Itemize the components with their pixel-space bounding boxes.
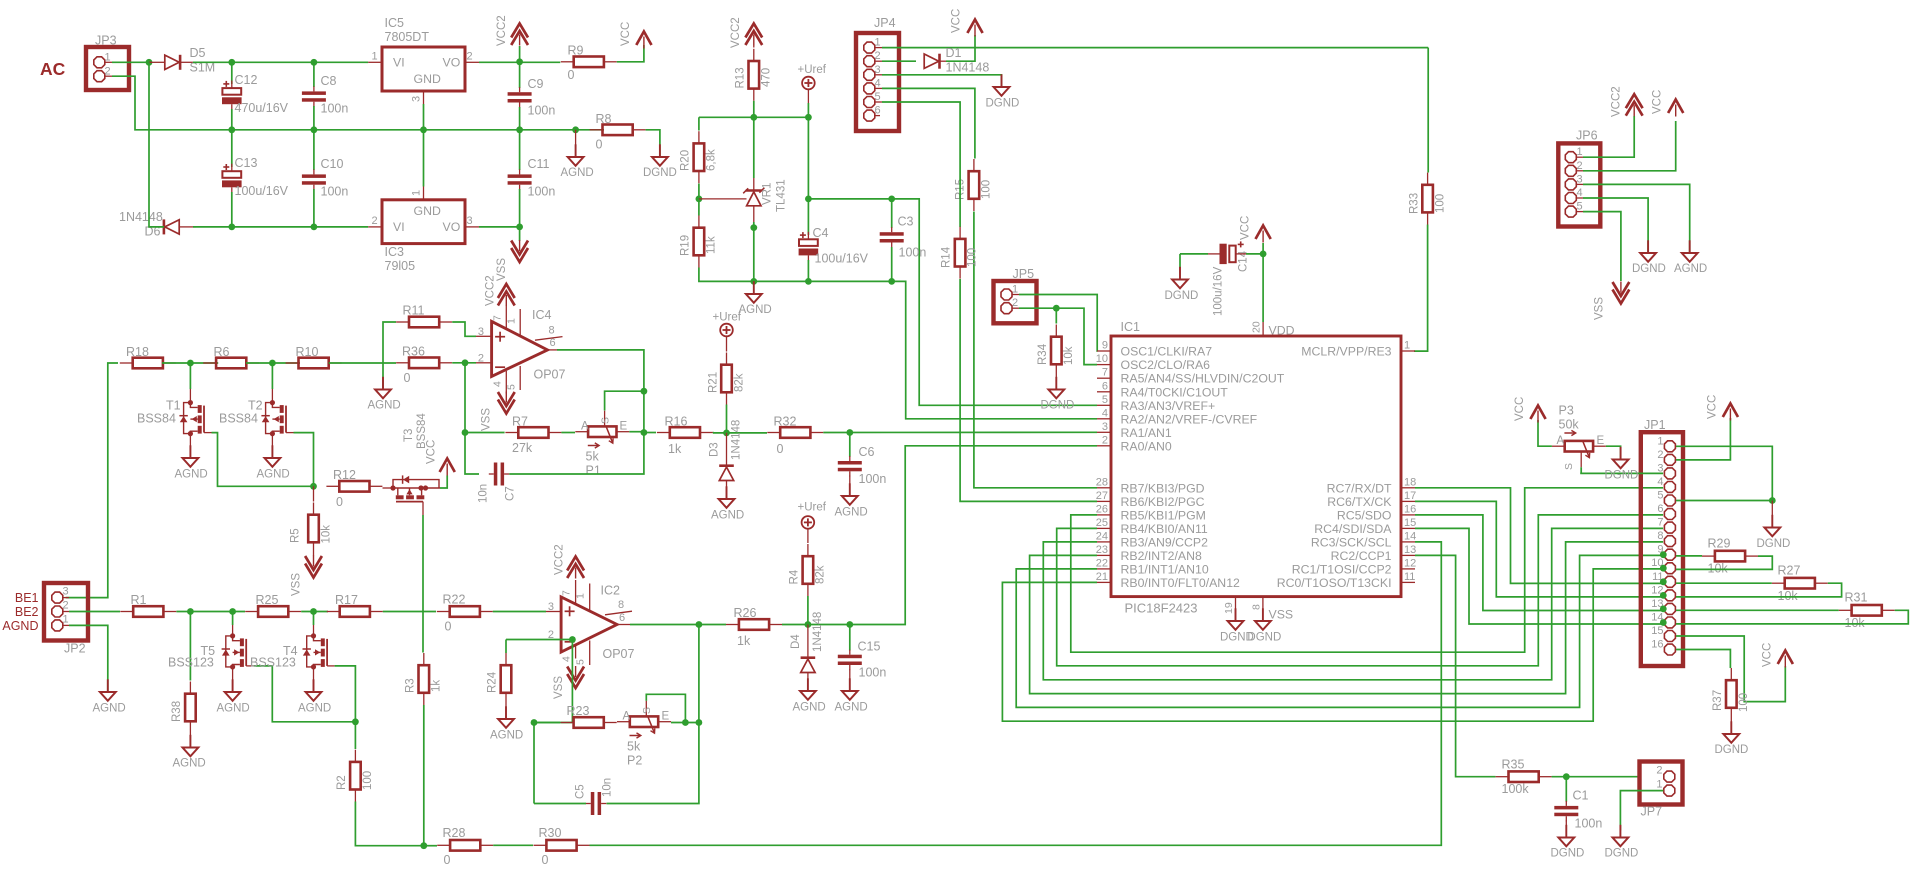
wire P1 S loop xyxy=(605,391,644,410)
trimmer P2 xyxy=(630,716,658,727)
ground AGND D3 xyxy=(726,486,728,499)
wire IC5 GND down xyxy=(423,104,425,130)
svg-text:100n: 100n xyxy=(859,666,887,680)
svg-text:R20: R20 xyxy=(680,150,692,171)
svg-text:R36: R36 xyxy=(402,345,425,359)
wire JP1.3 from P3 xyxy=(1580,472,1663,474)
resistor R15 xyxy=(969,171,980,199)
svg-text:14: 14 xyxy=(1404,530,1416,542)
svg-text:0: 0 xyxy=(336,495,343,509)
svg-text:DGND: DGND xyxy=(986,98,1020,110)
svg-text:IC4: IC4 xyxy=(532,308,552,322)
svg-text:R11: R11 xyxy=(403,304,425,318)
wire JP6.2 to VCC xyxy=(1583,121,1676,171)
svg-text:R22: R22 xyxy=(443,593,466,607)
svg-text:3: 3 xyxy=(1102,421,1108,433)
svg-text:JP7: JP7 xyxy=(1641,805,1663,819)
svg-text:T2: T2 xyxy=(248,399,263,413)
wire BE1 riser xyxy=(66,363,118,598)
resistor R11 xyxy=(409,317,439,328)
svg-text:1k: 1k xyxy=(737,634,751,648)
svg-text:7: 7 xyxy=(1102,367,1108,379)
resistor R17 xyxy=(340,606,370,617)
svg-text:10k: 10k xyxy=(321,525,333,544)
wire Uref rail xyxy=(807,89,809,103)
node VCC2 tap xyxy=(516,58,523,65)
node R34 xyxy=(1053,305,1060,312)
svg-text:7: 7 xyxy=(1657,517,1663,529)
node gate rail xyxy=(310,483,317,490)
svg-text:2: 2 xyxy=(478,353,484,365)
svg-text:AGND: AGND xyxy=(793,702,826,714)
svg-text:D3: D3 xyxy=(709,442,721,457)
svg-text:1: 1 xyxy=(875,37,881,49)
svg-text:VCC: VCC xyxy=(1514,397,1526,421)
wire R17 to R22 xyxy=(383,611,436,613)
IC4 pin1 stub xyxy=(519,309,521,336)
wire IC3 out to VSS xyxy=(479,227,520,241)
capacitor C12 xyxy=(231,62,233,84)
supply VSS JP6 xyxy=(1613,290,1630,304)
svg-text:VCC2: VCC2 xyxy=(496,15,508,46)
ground DGND xyxy=(659,144,661,157)
svg-text:VO: VO xyxy=(443,220,461,234)
svg-text:4: 4 xyxy=(1102,407,1108,419)
supply VCC VDD xyxy=(1262,243,1264,254)
svg-text:E: E xyxy=(662,711,670,723)
svg-text:5: 5 xyxy=(1577,201,1583,213)
node R23 xyxy=(531,719,538,726)
svg-text:3: 3 xyxy=(63,586,69,598)
connector JP4 xyxy=(856,33,899,131)
wire JP3.2 down to GND rail xyxy=(112,76,232,130)
svg-text:PIC18F2423: PIC18F2423 xyxy=(1125,601,1198,616)
wire RB3 to JP1.7 xyxy=(1043,528,1663,679)
wire R26 to RA0 riser xyxy=(782,446,1097,625)
svg-text:50k: 50k xyxy=(1559,418,1580,432)
IC2 pin4 VSS xyxy=(575,646,577,659)
svg-text:2: 2 xyxy=(1102,434,1108,446)
svg-text:R6: R6 xyxy=(214,345,230,359)
node T1 gate row xyxy=(187,360,194,367)
svg-text:2: 2 xyxy=(875,50,881,62)
resistor R28 xyxy=(450,840,480,851)
node C6 xyxy=(846,429,853,436)
svg-text:R19: R19 xyxy=(680,235,692,256)
supply VCC JP1.15 xyxy=(1778,651,1793,665)
resistor R13 xyxy=(753,46,755,48)
op-amp IC2 OP07 xyxy=(561,597,617,652)
T2 to AGND xyxy=(271,434,273,458)
svg-text:VI: VI xyxy=(393,220,405,234)
wire JP5.1 to OSC1 xyxy=(1019,295,1098,352)
svg-text:3: 3 xyxy=(478,326,484,338)
supply VCC P3 xyxy=(1530,406,1545,420)
svg-text:C15: C15 xyxy=(858,640,881,654)
svg-text:D5: D5 xyxy=(190,46,206,60)
wire RB4 to JP1.6 xyxy=(1057,515,1663,666)
svg-text:VR1: VR1 xyxy=(762,183,774,205)
svg-text:+Uref: +Uref xyxy=(798,502,827,514)
IC2 pin1 stub xyxy=(589,584,591,612)
wire P3 E to DGND xyxy=(1606,446,1621,459)
supply VSS xyxy=(511,248,528,262)
svg-text:1N4148: 1N4148 xyxy=(812,612,824,652)
svg-text:DGND: DGND xyxy=(1165,290,1199,302)
supply VCC JP6 xyxy=(1668,100,1683,114)
svg-text:7805DT: 7805DT xyxy=(385,30,430,44)
resistor R37 xyxy=(1726,680,1737,708)
ground DGND pin8 xyxy=(1262,608,1264,621)
IC4 pin8 stub xyxy=(535,337,563,341)
supply VCC2 xyxy=(519,46,521,62)
svg-text:R1: R1 xyxy=(131,593,147,607)
connector JP3 xyxy=(86,47,129,90)
svg-text:2: 2 xyxy=(1577,160,1583,172)
resistor R24 xyxy=(505,640,507,654)
wire R27 loop xyxy=(1676,583,1842,597)
svg-text:AGND: AGND xyxy=(93,703,126,715)
wire agnd rail right xyxy=(892,281,1097,418)
svg-text:R29: R29 xyxy=(1708,537,1731,551)
node C5 riser xyxy=(696,719,703,726)
svg-text:AGND: AGND xyxy=(490,730,523,742)
svg-text:RB1/INT1/AN10: RB1/INT1/AN10 xyxy=(1121,562,1209,576)
svg-text:VCC2: VCC2 xyxy=(554,544,566,575)
svg-text:RC7/RX/DT: RC7/RX/DT xyxy=(1327,481,1392,495)
svg-text:3: 3 xyxy=(548,601,554,613)
svg-text:DGND: DGND xyxy=(1041,400,1075,412)
supply +Uref R4 xyxy=(802,516,815,529)
node C15 xyxy=(846,621,853,628)
svg-text:1: 1 xyxy=(1012,284,1018,296)
svg-text:DGND: DGND xyxy=(1605,848,1639,860)
ground AGND ref xyxy=(753,281,755,293)
ground DGND pin19 xyxy=(1235,608,1237,621)
svg-text:0: 0 xyxy=(777,442,784,456)
trimmer P1 xyxy=(588,426,616,437)
svg-text:S: S xyxy=(1563,463,1575,470)
svg-text:VI: VI xyxy=(393,56,405,70)
svg-text:C9: C9 xyxy=(528,77,544,91)
wire R22 to IC2+ xyxy=(493,611,546,613)
resistor R29 xyxy=(1715,551,1745,562)
svg-text:100n: 100n xyxy=(899,246,927,260)
wire JP4.5 to R14 xyxy=(882,102,960,227)
node VR1 anode xyxy=(750,224,757,231)
svg-text:+Uref: +Uref xyxy=(713,312,742,324)
svg-text:15: 15 xyxy=(1651,625,1663,637)
svg-text:DGND: DGND xyxy=(1757,538,1791,550)
wire IC3 GND up xyxy=(423,130,425,187)
svg-text:C7: C7 xyxy=(505,486,517,501)
node AC1 xyxy=(146,59,153,66)
svg-text:2: 2 xyxy=(1657,449,1663,461)
IC2 pin8 stub xyxy=(605,611,632,615)
svg-text:R10: R10 xyxy=(296,345,319,359)
voltage regulator IC3 79l05 xyxy=(382,200,465,244)
svg-text:R4: R4 xyxy=(789,569,801,584)
node rail C12 xyxy=(228,126,235,133)
svg-text:100: 100 xyxy=(1435,194,1447,213)
svg-text:6: 6 xyxy=(1657,503,1663,515)
svg-text:VSS: VSS xyxy=(481,408,493,431)
svg-text:VCC2: VCC2 xyxy=(485,275,497,306)
svg-text:RA0/AN0: RA0/AN0 xyxy=(1121,439,1172,453)
svg-text:RA5/AN4/SS/HLVDIN/C2OUT: RA5/AN4/SS/HLVDIN/C2OUT xyxy=(1121,372,1285,386)
svg-text:BSS84: BSS84 xyxy=(219,412,258,426)
svg-text:1: 1 xyxy=(1404,340,1410,352)
wire R14 to RB6 xyxy=(960,279,1097,501)
svg-text:5: 5 xyxy=(575,659,587,665)
node C4 xyxy=(805,278,812,285)
svg-text:S: S xyxy=(641,707,653,714)
wire R28 to R30 xyxy=(493,844,533,846)
svg-text:3: 3 xyxy=(1577,173,1583,185)
node R3 bottom xyxy=(420,842,427,849)
svg-text:R35: R35 xyxy=(1502,758,1525,772)
svg-text:IC2: IC2 xyxy=(601,584,621,598)
T3 drain to R3 xyxy=(422,515,424,653)
svg-text:R17: R17 xyxy=(335,593,358,607)
svg-text:RC2/CCP1: RC2/CCP1 xyxy=(1331,549,1392,563)
svg-text:JP3: JP3 xyxy=(95,34,117,48)
svg-text:RB0/INT0/FLT0/AN12: RB0/INT0/FLT0/AN12 xyxy=(1121,576,1241,590)
svg-text:P2: P2 xyxy=(627,754,642,768)
wire JP1.15 VCC xyxy=(1676,636,1785,702)
svg-text:R18: R18 xyxy=(126,345,149,359)
svg-text:AGND: AGND xyxy=(739,304,772,316)
wire D6 rail xyxy=(149,62,164,227)
wire T1 gate down xyxy=(212,433,314,487)
svg-text:AGND: AGND xyxy=(298,703,331,715)
svg-text:JP5: JP5 xyxy=(1013,267,1035,281)
svg-text:R31: R31 xyxy=(1845,591,1868,605)
svg-text:79l05: 79l05 xyxy=(385,259,416,273)
node rail2 C10 xyxy=(311,224,318,231)
svg-text:C12: C12 xyxy=(235,73,258,87)
resistor R33 xyxy=(1422,185,1433,213)
svg-text:7: 7 xyxy=(492,315,504,321)
node T5 gate xyxy=(229,608,236,615)
diode D4 xyxy=(807,625,809,659)
svg-text:27k: 27k xyxy=(512,441,533,455)
svg-text:22: 22 xyxy=(1096,557,1108,569)
resistor R19 xyxy=(694,228,705,256)
ground DGND R34 xyxy=(1055,377,1057,390)
svg-text:R33: R33 xyxy=(1409,193,1421,214)
svg-text:VCC: VCC xyxy=(1240,216,1252,240)
wire R10 to R36 xyxy=(329,362,396,364)
ground AGND rail xyxy=(575,130,577,157)
svg-text:100: 100 xyxy=(1738,693,1750,712)
transistor T3 BSS84 xyxy=(383,487,394,489)
svg-text:GND: GND xyxy=(414,204,441,218)
svg-text:R21: R21 xyxy=(708,372,720,393)
svg-text:8: 8 xyxy=(1251,604,1263,610)
svg-text:VSS: VSS xyxy=(1594,297,1606,320)
resistor R23 xyxy=(574,717,604,728)
svg-text:15: 15 xyxy=(1404,517,1416,529)
svg-text:AGND: AGND xyxy=(835,507,868,519)
svg-text:0: 0 xyxy=(404,371,411,385)
capacitor C15 xyxy=(849,625,851,651)
svg-text:0: 0 xyxy=(445,620,452,634)
wire BE2 row xyxy=(69,611,120,613)
svg-text:MCLR/VPP/RE3: MCLR/VPP/RE3 xyxy=(1301,345,1391,359)
wire C14 left to DGND xyxy=(1208,253,1220,255)
node Uref drop xyxy=(805,114,812,121)
resistor R22 xyxy=(450,606,480,617)
capacitor C7 feedback xyxy=(494,463,498,486)
diode D1 xyxy=(882,60,916,62)
wire inv to feedback rail xyxy=(465,363,479,474)
svg-text:C3: C3 xyxy=(898,215,914,229)
svg-text:R2: R2 xyxy=(336,775,348,790)
svg-text:T3: T3 xyxy=(403,429,415,442)
node R38 top xyxy=(187,608,194,615)
svg-text:BSS123: BSS123 xyxy=(168,656,214,670)
svg-text:18: 18 xyxy=(1404,476,1416,488)
svg-text:VSS: VSS xyxy=(291,573,303,596)
svg-text:RC4/SDI/SDA: RC4/SDI/SDA xyxy=(1314,522,1392,536)
wire RB2 to JP1.8 xyxy=(1030,542,1664,694)
resistor R32 xyxy=(780,427,810,438)
svg-text:6: 6 xyxy=(875,105,881,117)
resistor R2 xyxy=(354,722,356,749)
node ref rail2 xyxy=(805,196,812,203)
svg-text:100n: 100n xyxy=(321,185,349,199)
svg-text:IC1: IC1 xyxy=(1121,320,1141,334)
svg-text:470: 470 xyxy=(761,68,773,87)
svg-text:RA1/AN1: RA1/AN1 xyxy=(1121,426,1172,440)
svg-text:100n: 100n xyxy=(1575,817,1603,831)
svg-text:OP07: OP07 xyxy=(603,647,635,661)
svg-text:28: 28 xyxy=(1096,476,1108,488)
svg-text:RB3/AN9/CCP2: RB3/AN9/CCP2 xyxy=(1121,535,1209,549)
node AGND drop xyxy=(750,278,757,285)
svg-text:8: 8 xyxy=(1657,530,1663,542)
diode D5 xyxy=(165,55,179,69)
svg-text:10: 10 xyxy=(1096,353,1108,365)
supply VCC xyxy=(636,32,651,46)
resistor R36 xyxy=(409,358,439,369)
ground AGND R38 xyxy=(189,734,191,748)
svg-text:100n: 100n xyxy=(528,104,556,118)
svg-text:AGND: AGND xyxy=(711,510,744,522)
svg-text:7: 7 xyxy=(561,590,573,596)
node JP1 DGND xyxy=(1769,497,1776,504)
resistor R5 xyxy=(313,486,315,501)
wire output down xyxy=(643,391,645,432)
svg-text:100n: 100n xyxy=(528,185,556,199)
node feedback rail xyxy=(462,429,469,436)
ground DGND JP1 xyxy=(1771,515,1773,528)
wire P3 A to VCC xyxy=(1538,420,1552,446)
resistor R38 xyxy=(189,612,191,681)
wire JP6.3 to AGND xyxy=(1583,184,1690,252)
ground AGND JP6 xyxy=(1689,240,1691,253)
svg-text:RB5/KBI1/PGM: RB5/KBI1/PGM xyxy=(1121,508,1206,522)
transistor T4 BSS123 xyxy=(313,612,315,626)
svg-text:R23: R23 xyxy=(567,704,590,718)
svg-text:1: 1 xyxy=(63,613,69,625)
JP1 pin dots xyxy=(1660,551,1667,558)
node S loop xyxy=(641,388,648,395)
svg-text:5: 5 xyxy=(506,384,518,390)
svg-text:+Uref: +Uref xyxy=(798,64,827,76)
svg-text:BSS123: BSS123 xyxy=(250,656,296,670)
T4 to AGND xyxy=(313,667,315,692)
svg-text:R25: R25 xyxy=(256,593,279,607)
svg-text:0: 0 xyxy=(542,853,549,867)
svg-text:AGND: AGND xyxy=(257,469,290,481)
T3 source to VCC xyxy=(440,476,447,489)
supply +Uref top xyxy=(802,77,815,90)
wire GND rail xyxy=(232,129,604,131)
node C3 top xyxy=(888,196,895,203)
svg-text:RC1/T1OSI/CCP2: RC1/T1OSI/CCP2 xyxy=(1292,562,1392,576)
resistor R18 xyxy=(133,358,163,369)
wire JP1.5 DGND xyxy=(1676,500,1772,502)
svg-text:C10: C10 xyxy=(321,157,344,171)
svg-text:10k: 10k xyxy=(1778,589,1799,603)
resistor R7 xyxy=(518,427,548,438)
wire RC4 to JP1.14 xyxy=(1415,528,1663,624)
ground AGND JP2 xyxy=(107,679,109,692)
resistor R1 xyxy=(133,606,163,617)
svg-text:RC5/SDO: RC5/SDO xyxy=(1337,508,1392,522)
svg-text:AGND: AGND xyxy=(368,400,401,412)
svg-text:R12: R12 xyxy=(333,468,356,482)
node rail AGND xyxy=(572,126,579,133)
svg-text:T1: T1 xyxy=(166,399,181,413)
svg-text:8: 8 xyxy=(618,599,624,611)
node R13 bottom xyxy=(750,114,757,121)
svg-text:C13: C13 xyxy=(235,156,258,170)
wire JP2.1 to AGND xyxy=(69,625,108,691)
node rail C11 xyxy=(516,126,523,133)
wire D5 to IC5 xyxy=(193,61,368,63)
transistor T5 BSS123 xyxy=(232,612,234,626)
svg-text:R24: R24 xyxy=(487,671,499,693)
resistor R31 xyxy=(1852,605,1882,616)
wire C14 right to VDD xyxy=(1236,253,1246,255)
svg-text:2: 2 xyxy=(467,51,473,63)
svg-text:DGND: DGND xyxy=(1247,632,1281,644)
node ref divider xyxy=(696,196,703,203)
svg-text:R16: R16 xyxy=(665,415,688,429)
svg-text:21: 21 xyxy=(1096,571,1108,583)
diode D3 xyxy=(726,433,728,466)
svg-text:BE1: BE1 xyxy=(15,591,39,605)
svg-text:1: 1 xyxy=(1656,779,1662,791)
node C12 top xyxy=(228,59,235,66)
connector JP6 xyxy=(1558,143,1600,226)
svg-text:100u/16V: 100u/16V xyxy=(815,252,869,266)
svg-text:P3: P3 xyxy=(1559,404,1574,418)
svg-text:VCC2: VCC2 xyxy=(730,17,742,48)
svg-text:R34: R34 xyxy=(1037,343,1049,365)
svg-text:82k: 82k xyxy=(815,565,827,584)
svg-text:AGND: AGND xyxy=(561,167,594,179)
svg-text:R8: R8 xyxy=(596,112,612,126)
supply +Uref R21 xyxy=(720,324,733,337)
svg-text:AGND: AGND xyxy=(2,619,38,633)
wire D1 to VCC xyxy=(946,35,975,61)
wire divider mid xyxy=(698,184,700,199)
svg-text:P1: P1 xyxy=(586,464,601,478)
